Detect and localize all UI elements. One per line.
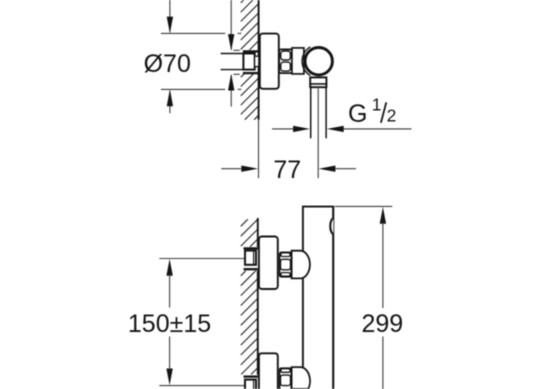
dimension G 1/2 : label [348,95,396,129]
dimension Ø70 : upper dim line [167,0,173,33]
svg-text:G: G [348,100,367,128]
dimension 299 : dim line with arrow [380,207,386,389]
svg-text:Ø70: Ø70 [144,50,191,78]
connection cone bottom (front view) [292,367,310,389]
supply pipe line bottom / extension 150 bottom [159,385,244,387]
dimension 299 : value label [362,310,404,338]
supply pipe line top / extension 150 top [159,258,244,260]
wall hatch (front view) [241,219,258,374]
dimension 77 : value label [273,156,301,184]
supply pipe top line [221,53,244,55]
dimension G 1/2 : right dim line and arrow [327,126,412,132]
svg-text:150±15: 150±15 [128,310,211,338]
hose collar nut [309,77,327,87]
svg-text:299: 299 [362,310,404,338]
valve cylinder neck (top view) [292,48,304,74]
svg-text:77: 77 [273,156,301,184]
dimension 77 : right dim line and arrow [319,166,356,172]
svg-text:2: 2 [387,106,397,126]
wall face line (top view) [258,0,260,120]
dimension Ø70 : top extension line [161,32,242,34]
union square nut top (front view) [245,251,256,265]
wall face extension line down to 77 dimension [258,120,260,179]
dimension supply hole : bottom tick dash [233,73,239,75]
valve body circle (top view) [305,48,332,75]
shower hose left line [310,87,312,138]
dimension supply hole : top tick dash [233,49,239,51]
dimension G 1/2 : left dim line and arrow [272,126,310,132]
dimension Ø70 : value label [144,50,191,78]
dimension 299 : extension line from body top [335,205,392,207]
hole edge lines top connection [244,248,258,269]
dimension 150±15 : top arrow [166,259,172,308]
mixer body (front view) [302,207,334,389]
hex nut bottom (front view) [280,368,292,389]
svg-text:1: 1 [372,95,382,115]
union square nut behind wall [243,54,254,70]
dimension 77 : left dim line and arrow [221,166,258,172]
dimension 150±15 : bottom arrow [166,337,172,386]
hole top edge line [243,50,259,52]
hex nut top (front view) [280,252,292,276]
hole edge line bottom connection [244,375,258,377]
dimension supply hole : upper dim line [228,0,234,51]
union nipple through wall [255,56,259,66]
dimension Ø70 : bottom extension line [161,88,242,90]
shower hose right line [325,87,327,138]
escutcheon bottom (front view) [259,353,278,389]
escutcheon (top view) [260,34,279,89]
union square nut bottom (front view) [245,380,256,389]
wall hatch (top view) [241,0,259,120]
wall face line (front view) [257,218,259,375]
escutcheon top (front view) [259,237,278,290]
hex nut (top view) [279,49,292,73]
dimension 150±15 : value label [128,310,211,338]
dimension supply hole : lower dim line [228,74,234,107]
supply pipe bottom line [221,69,244,71]
dimension Ø70 : lower dim line [167,89,173,113]
connection cone top (front view) [292,251,310,279]
temperature stop knob on body edge [330,219,333,234]
hole bottom edge line [243,72,259,74]
valve shoulder arc [302,47,310,76]
hose centre line / extension for 77 [317,89,319,179]
